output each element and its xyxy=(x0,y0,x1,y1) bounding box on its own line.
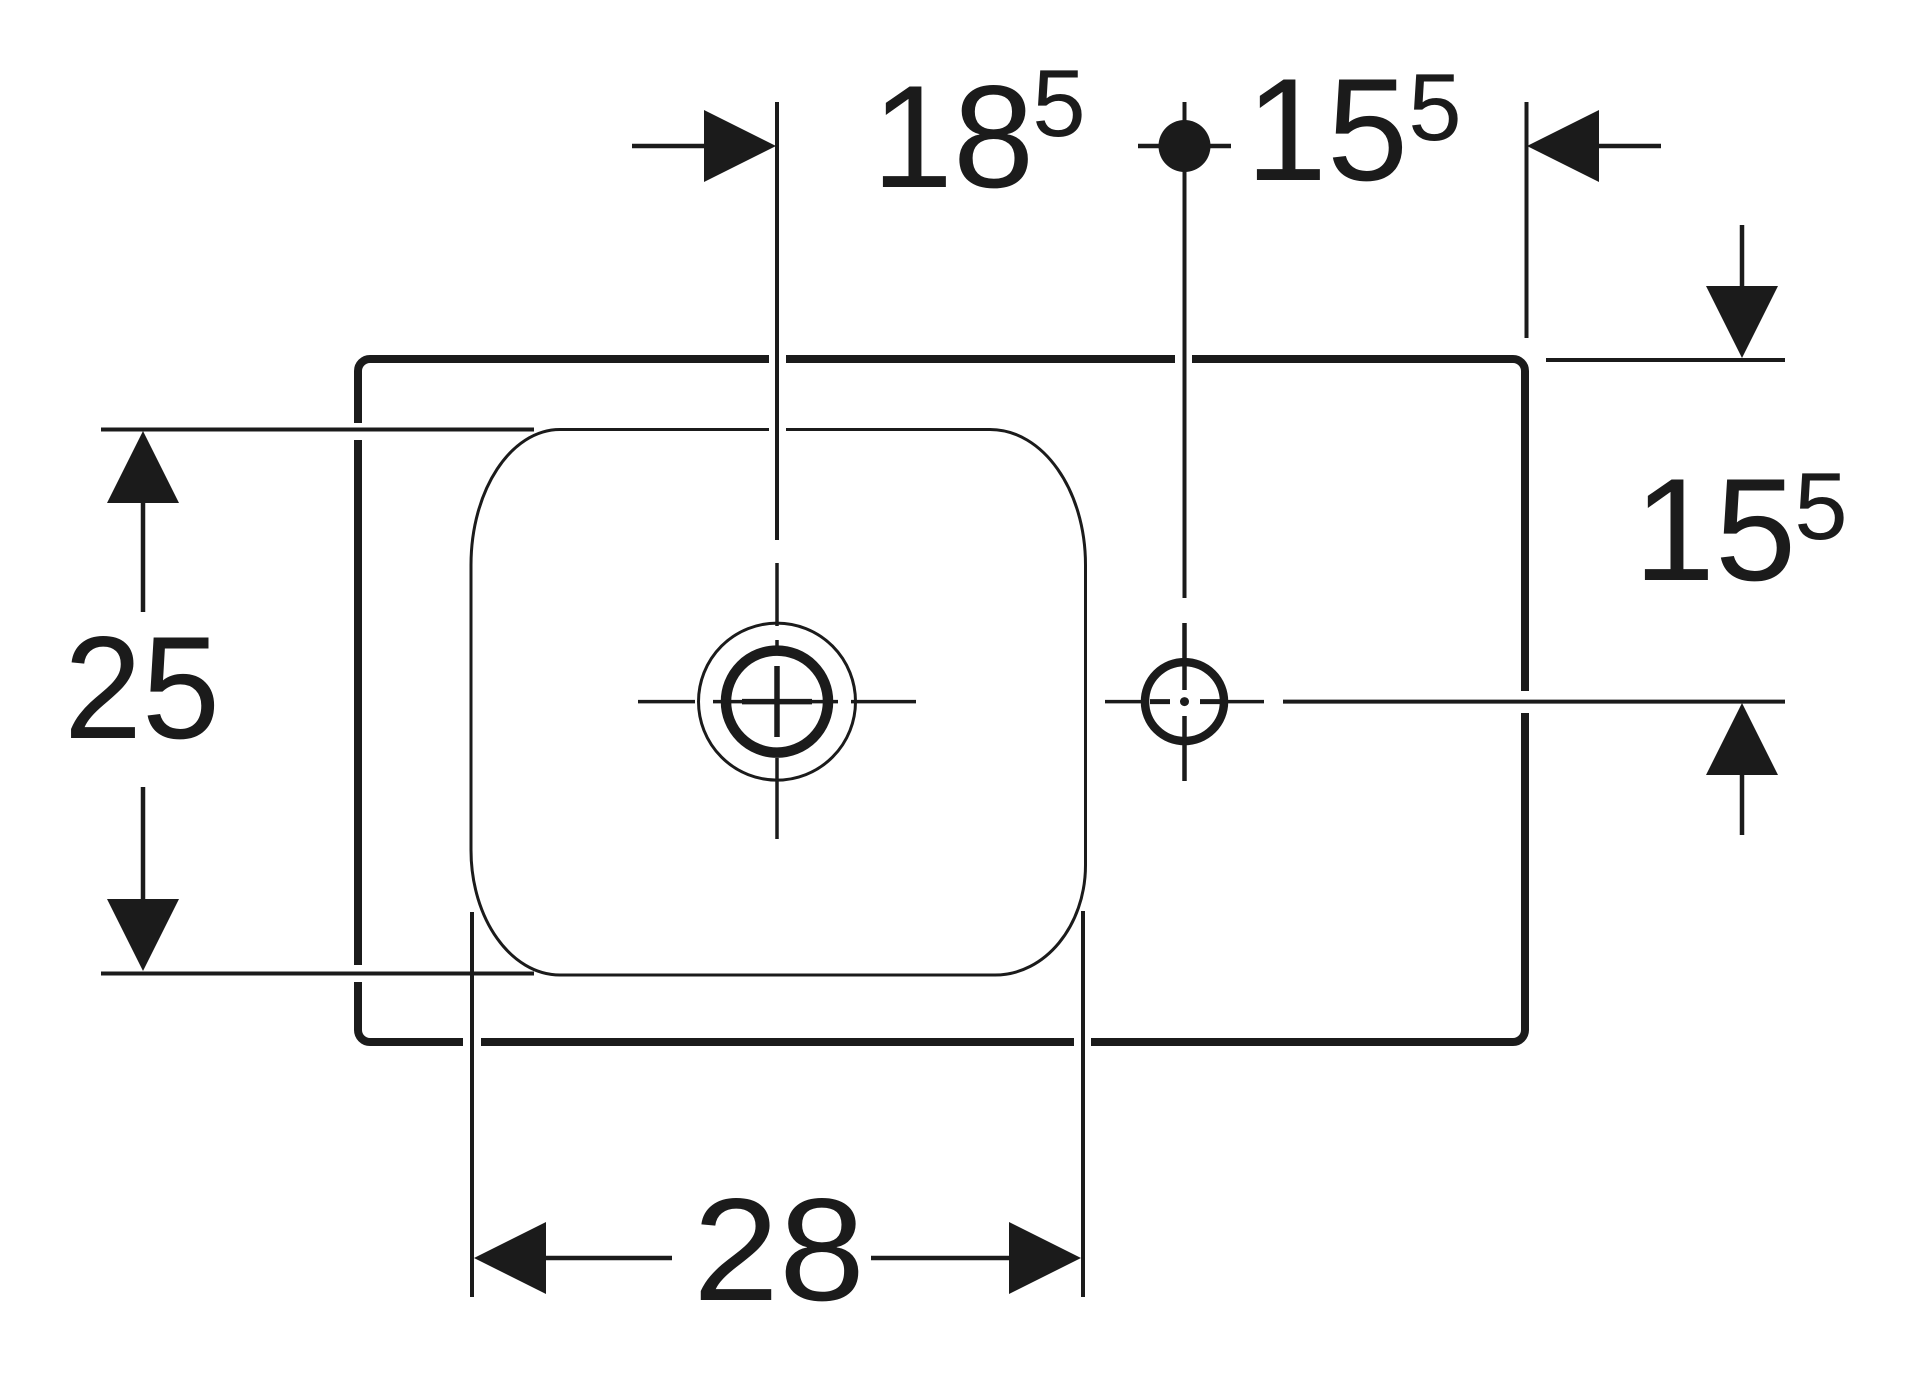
svg-text:15: 15 xyxy=(1246,48,1408,211)
svg-text:18: 18 xyxy=(872,55,1034,218)
svg-text:25: 25 xyxy=(64,606,220,769)
svg-text:28: 28 xyxy=(693,1168,865,1331)
svg-text:15: 15 xyxy=(1634,448,1796,611)
svg-text:5: 5 xyxy=(1032,50,1085,157)
svg-text:5: 5 xyxy=(1794,453,1847,560)
svg-text:5: 5 xyxy=(1408,54,1461,161)
